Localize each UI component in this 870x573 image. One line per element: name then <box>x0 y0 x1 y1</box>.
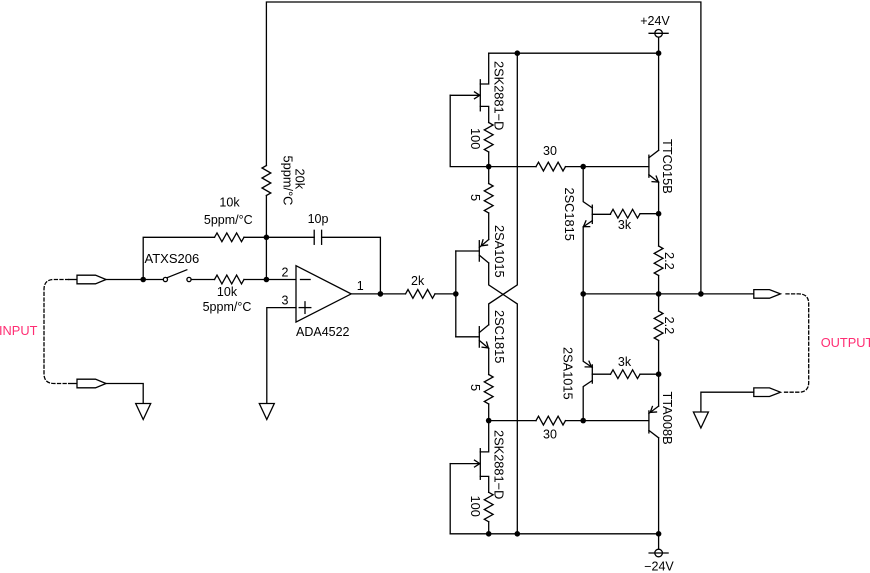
transistor 2SC1815 lower pair <box>479 325 488 349</box>
svg-text:2SA1015: 2SA1015 <box>561 347 576 400</box>
svg-text:30: 30 <box>543 428 557 442</box>
wire pair collector cross <box>489 263 518 534</box>
wire node A down to inverting row <box>265 237 267 279</box>
wire 100 to junction top <box>488 152 490 167</box>
svg-text:2SA1015: 2SA1015 <box>492 225 507 278</box>
svg-text:1: 1 <box>357 279 364 293</box>
svg-text:3k: 3k <box>618 355 632 369</box>
op-amp ADA4522 <box>296 266 351 322</box>
connector input return <box>69 379 106 388</box>
wire 30 row bottom left <box>489 420 536 422</box>
svg-text:10k: 10k <box>219 195 240 209</box>
junction base line <box>453 291 459 297</box>
junction source node bottom <box>486 418 492 424</box>
svg-text:5ppm/°C: 5ppm/°C <box>204 213 253 227</box>
svg-text:20k: 20k <box>293 169 308 190</box>
wire op-amp output <box>351 293 405 295</box>
cable output dashed <box>785 294 809 392</box>
resistor 100 bottom <box>484 492 493 522</box>
junction source node top <box>486 164 492 170</box>
resistor 10k feedback <box>215 233 245 242</box>
wire 2k to base line <box>435 293 456 295</box>
junction 3k bottom node <box>656 371 662 377</box>
junction output row at feedback <box>698 291 704 297</box>
wire input to switch <box>106 279 163 281</box>
svg-text:TTC015B: TTC015B <box>660 139 675 194</box>
svg-text:INPUT: INPUT <box>0 323 38 338</box>
wire 30 row top left <box>489 166 536 168</box>
junction 30 bottom node <box>580 418 586 424</box>
transistor 2SK2881-D top FET <box>450 53 489 122</box>
resistor 30 top <box>536 162 566 171</box>
ground input <box>136 404 151 420</box>
resistor 3k top <box>611 209 641 218</box>
resistor 2.2 top <box>654 246 663 276</box>
wire 3k node to 2.2 top <box>658 214 660 246</box>
wire 3k top to emitter node <box>640 213 659 215</box>
svg-text:2: 2 <box>282 265 289 279</box>
wire 30 bottom to base <box>566 420 649 422</box>
wire 30 top to base <box>566 166 649 168</box>
junction bottom rail at 100 <box>486 531 492 537</box>
svg-text:5: 5 <box>468 194 483 201</box>
wire TTC collector <box>658 53 660 150</box>
resistor 20k <box>262 166 271 196</box>
svg-text:+24V: +24V <box>640 14 670 28</box>
wire 5 bottom leads <box>488 348 490 374</box>
wire 2.2 bottom to output row <box>658 294 660 311</box>
svg-text:100: 100 <box>468 128 483 149</box>
resistor 5 bottom <box>484 375 493 405</box>
svg-text:30: 30 <box>543 144 557 158</box>
transistor 2SA1015 upper pair <box>479 240 488 264</box>
junction top rail at +24V <box>656 50 662 56</box>
switch ATXS206 <box>163 270 191 282</box>
svg-text:3k: 3k <box>618 218 632 232</box>
svg-text:3: 3 <box>282 294 289 308</box>
wire 2.2 top to output row <box>658 276 660 294</box>
transistor 2SA1015 clamp bottom <box>583 294 610 421</box>
svg-text:TTA008B: TTA008B <box>660 392 675 445</box>
wire TTA collector to rail <box>658 438 660 534</box>
junction output row at 2.2 <box>656 291 662 297</box>
resistor 2.2 bottom <box>654 311 663 341</box>
connector output hot <box>754 290 781 299</box>
power +24V <box>649 30 668 54</box>
resistor 10k input <box>215 275 245 284</box>
wire base lead upper <box>456 250 480 252</box>
wire output return to ground <box>701 392 754 412</box>
svg-text:2SC1815: 2SC1815 <box>492 310 507 363</box>
svg-text:2SC1815: 2SC1815 <box>562 188 577 241</box>
junction right column top rail <box>515 50 521 56</box>
junction node A column at pin2 row <box>264 277 270 283</box>
wire feedback top (output to 20k) <box>266 2 701 294</box>
ground op-amp <box>259 404 274 420</box>
connector input hot <box>69 275 106 284</box>
svg-text:5: 5 <box>468 384 483 391</box>
capacitor 10p wire right <box>322 237 381 294</box>
resistor 5 top <box>484 184 493 214</box>
svg-text:10p: 10p <box>308 212 329 226</box>
cable input dashed <box>44 280 69 384</box>
transistor 2SC1815 clamp top <box>583 167 610 294</box>
svg-text:2.2: 2.2 <box>662 252 677 270</box>
junction 3k top node <box>656 211 662 217</box>
junction output row at clamp <box>580 291 586 297</box>
svg-text:2k: 2k <box>411 274 425 288</box>
resistor 3k bottom <box>611 370 641 379</box>
wire base line vertical <box>455 251 457 337</box>
power -24V <box>649 534 668 557</box>
wire switch to 10k <box>191 279 214 281</box>
junction right column bottom rail <box>515 531 521 537</box>
wire gate loop top <box>450 95 489 166</box>
junction input node <box>140 277 146 283</box>
wire top rail <box>489 52 659 54</box>
junction bottom rail at -24V <box>656 531 662 537</box>
connector output return <box>754 388 781 397</box>
wire 10k to op-amp pin2 <box>244 279 296 281</box>
svg-text:2SK2881−D: 2SK2881−D <box>492 430 507 499</box>
wire gate loop bottom <box>449 464 451 534</box>
svg-text:100: 100 <box>468 496 483 517</box>
wire bottom rail <box>450 533 658 535</box>
transistor TTA008B <box>649 406 659 438</box>
wire TTC emitter to 3k node <box>658 182 660 214</box>
capacitor 10p wire left <box>266 236 314 238</box>
ground output <box>693 412 708 428</box>
wire 3k bottom to emitter node <box>640 373 659 375</box>
resistor 30 bottom <box>536 416 566 425</box>
node A junction <box>264 235 270 241</box>
resistor 2k <box>406 290 436 299</box>
wire 10k feedback to node A <box>244 236 266 238</box>
wire input return to ground <box>106 384 143 404</box>
wire 100 to bottom rail <box>488 522 490 534</box>
junction 10p at op-amp output <box>378 291 384 297</box>
resistor 100 top <box>484 123 493 153</box>
wire TTA emitter to 3k node <box>658 374 660 406</box>
svg-text:5ppm/°C: 5ppm/°C <box>203 300 252 314</box>
svg-text:10k: 10k <box>217 285 238 299</box>
svg-text:OUTPUT: OUTPUT <box>821 335 870 350</box>
svg-text:ATXS206: ATXS206 <box>145 251 200 266</box>
transistor 2SK2881-D bottom FET <box>450 421 489 493</box>
wire output row <box>583 293 754 295</box>
wire 20k to node A <box>265 196 267 238</box>
junction 30 top node <box>580 164 586 170</box>
wire 5 top leads <box>488 167 490 184</box>
wire 10k feedback row left <box>143 237 214 279</box>
svg-text:2.2: 2.2 <box>662 317 677 335</box>
svg-text:2SK2881−D: 2SK2881−D <box>492 61 507 130</box>
svg-text:−24V: −24V <box>644 560 674 573</box>
wire op-amp pin3 to ground <box>267 308 296 404</box>
svg-text:ADA4522: ADA4522 <box>296 325 350 339</box>
wire 3k node to 2.2 bottom <box>658 341 660 375</box>
capacitor 10p <box>314 230 321 244</box>
transistor TTC015B <box>649 150 659 182</box>
wire base lead lower <box>456 336 480 338</box>
